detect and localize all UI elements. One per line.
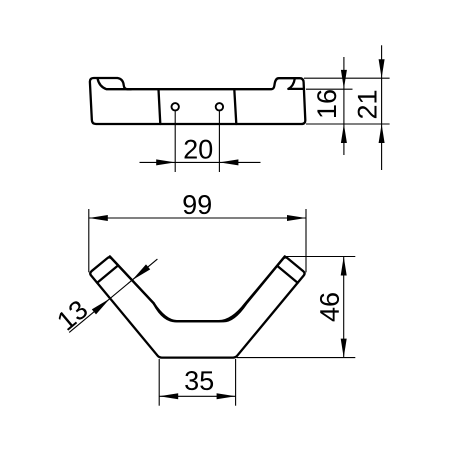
top view left division line [159, 89, 161, 124]
top view right lip inner curve [288, 79, 294, 89]
dimension text 99 [183, 195, 210, 214]
arrowhead dim 21 top (points down) [379, 59, 385, 78]
dimension text 16 (rotated) [317, 90, 336, 117]
extension line from left hole [174, 111, 176, 172]
arrowhead dim 46 top (points up) [341, 257, 347, 276]
extension line right for dim 35 [235, 359, 237, 406]
dimension text 21 (rotated) [358, 91, 377, 118]
dimension line 35 [159, 395, 235, 397]
front view outline (double hook V shape) [90, 257, 304, 357]
extension line top for dim 21 [304, 77, 390, 79]
arrowhead dim 21 bottom (points up) [379, 124, 385, 143]
arrowhead dim 20 left (points right at extension line) [156, 159, 175, 165]
dimension text 46 (rotated) [320, 293, 339, 321]
arrowhead dim 13 lower (points up-right at outer edge) [92, 299, 110, 315]
top view left lip inner curve [98, 79, 131, 90]
extension line right for dim 99 [305, 209, 307, 272]
extension line top for dim 46 [286, 256, 355, 258]
left hook tip chamfer line [97, 266, 118, 283]
right hook tip chamfer line [277, 266, 298, 283]
dimension line 13 (crosses hook arm) [69, 259, 157, 332]
front view inner V notch profile [110, 256, 285, 321]
extension line top for dim 16 [306, 88, 353, 90]
mounting hole left [172, 103, 179, 110]
arrowhead dim 13 upper (points down-left at inner edge) [132, 264, 150, 280]
extension line bottom shared by dims 16 and 21 [306, 123, 390, 125]
dimension line 20 [140, 161, 261, 163]
extension line left for dim 35 [158, 359, 160, 406]
arrowhead dim 35 left (points left) [159, 393, 178, 399]
dimension line 21 [381, 45, 383, 170]
arrowhead dim 35 right (points right) [217, 393, 236, 399]
top view outline (wall bracket profile) [90, 78, 305, 124]
arrowhead dim 16 top (points down) [341, 70, 347, 89]
top view right division line [234, 89, 236, 124]
dimension line 16 [343, 57, 345, 155]
dimension line 46 [343, 257, 345, 358]
mounting hole right [216, 103, 223, 110]
arrowhead dim 16 bottom (points up) [341, 124, 347, 143]
arrowhead dim 99 left (points left) [89, 215, 108, 221]
dimension line 99 [89, 217, 306, 219]
arrowhead dim 99 right (points right) [287, 215, 306, 221]
dimension text 35 [185, 371, 213, 390]
top view back edge segment under right lip [288, 88, 304, 90]
dimension text 20 [185, 140, 213, 159]
arrowhead dim 20 right (points left at extension line) [219, 159, 238, 165]
thin dimension and extension lines [69, 45, 389, 405]
extension line left for dim 99 [88, 209, 90, 272]
arrowhead dim 46 bottom (points down) [341, 339, 347, 358]
extension line from right hole [218, 111, 220, 172]
extension line bottom for dim 46 [237, 357, 356, 359]
dimension text 13 (rotated along leader) [56, 299, 89, 331]
